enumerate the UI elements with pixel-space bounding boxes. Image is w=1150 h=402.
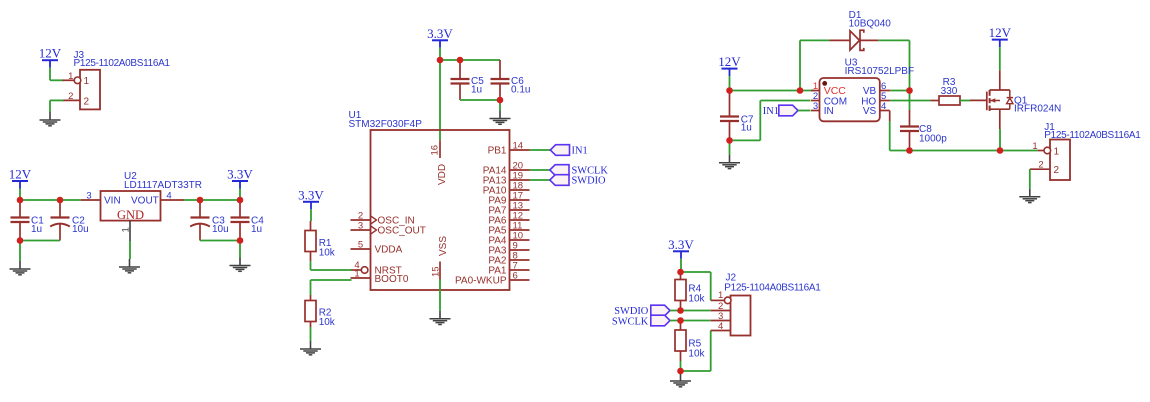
ground (J2) <box>680 373 682 381</box>
capacitor C8 <box>909 91 911 111</box>
net label SWDIO (J2) <box>651 305 670 316</box>
wire 3.3V rail down to VDD <box>439 48 441 141</box>
wire U2 GND to ground <box>129 241 131 259</box>
svg-text:OSC_OUT: OSC_OUT <box>378 225 426 236</box>
wire R5 to ground <box>680 351 682 361</box>
U1 pin 6 PA0-WKUP <box>510 279 530 281</box>
node junction (680.5,310.5) <box>677 307 684 314</box>
svg-text:BOOT0: BOOT0 <box>375 274 409 285</box>
svg-text:VIN: VIN <box>104 196 121 207</box>
svg-text:10BQ040: 10BQ040 <box>849 18 892 29</box>
svg-text:1: 1 <box>121 227 132 232</box>
svg-text:SWDIO: SWDIO <box>572 175 607 186</box>
svg-text:4: 4 <box>718 321 723 332</box>
svg-text:3.3V: 3.3V <box>298 187 324 202</box>
U1 pin 19 PA13 <box>510 179 530 181</box>
wire SWCLK to J2 pin 3 <box>670 320 711 322</box>
svg-text:IRS10752LPBF: IRS10752LPBF <box>845 66 915 77</box>
wire C6 to ground <box>499 100 501 111</box>
MCU U1 box <box>371 130 510 290</box>
U1 pin 7 PA1 <box>510 269 530 271</box>
U1 pin 3 OSC_OUT <box>351 229 371 231</box>
U1 pin 18 PA10 <box>510 189 530 191</box>
U1 pin 1 BOOT0 <box>351 277 371 279</box>
node junction (460,60) <box>457 57 464 64</box>
svg-text:2: 2 <box>68 91 73 102</box>
node junction (200,200) <box>197 197 204 204</box>
J1 pin 2 <box>1030 168 1050 170</box>
wire 12V to J3 pin 1 <box>49 68 51 81</box>
svg-text:3.3V: 3.3V <box>668 237 694 252</box>
wire to J2 pin 1 <box>681 271 711 273</box>
node junction (909.5,90.5) <box>906 87 913 94</box>
wire VB to bootstrap node <box>890 90 909 92</box>
wire R2 to ground <box>310 322 312 328</box>
wire 3.3V to R1 <box>310 209 312 221</box>
svg-text:1: 1 <box>1054 146 1060 157</box>
wire D1 cathode to VB <box>878 39 909 41</box>
capacitor C7 <box>729 91 731 117</box>
wire 3.3V rail right <box>440 59 500 61</box>
svg-text:0.1u: 0.1u <box>511 85 530 96</box>
U1 pin 14 PB1 <box>510 149 530 151</box>
wire PA13 to SWDIO <box>530 179 551 181</box>
svg-text:3.3V: 3.3V <box>427 26 453 41</box>
net label SWCLK <box>550 165 569 176</box>
U1 pin 16 VDD <box>439 140 441 158</box>
U1 pin 20 PA14 <box>510 169 530 171</box>
svg-text:P125-1102A0BS116A1: P125-1102A0BS116A1 <box>1044 130 1141 141</box>
svg-text:1u: 1u <box>741 123 752 134</box>
svg-text:IN1: IN1 <box>572 145 588 156</box>
capacitor C2 (polarized) <box>59 200 61 218</box>
wire VSS to ground <box>439 280 441 311</box>
wire VOUT to 3.3V <box>184 199 240 201</box>
wire source to J1 row <box>999 129 1001 151</box>
wire R1 to NRST <box>310 252 312 262</box>
node junction (800,90.5) <box>797 87 804 94</box>
wire J1 pin 2 to ground <box>1029 169 1031 189</box>
wire VS to source rail <box>889 111 891 122</box>
svg-text:SWCLK: SWCLK <box>612 316 649 327</box>
svg-text:1u: 1u <box>251 224 262 235</box>
U3 pin 2 COM <box>811 100 820 102</box>
svg-text:VDDA: VDDA <box>375 244 403 255</box>
svg-text:3: 3 <box>358 221 363 232</box>
resistor R3 <box>931 100 940 102</box>
svg-text:1: 1 <box>718 290 723 301</box>
node junction (680.5,371) <box>677 368 684 375</box>
capacitor C3 (polarized) <box>199 200 201 218</box>
node junction (440,60) <box>437 57 444 64</box>
U1 pin 8 PA2 <box>510 259 530 261</box>
wire C5-C6 bottom <box>460 99 500 101</box>
U1 pin 11 PA5 <box>510 229 530 231</box>
svg-text:IRFR024N: IRFR024N <box>1014 103 1061 114</box>
ground (J1) <box>1029 189 1031 197</box>
node junction (909.5,150.5) <box>906 147 913 154</box>
node junction (680.5,320.5) <box>677 317 684 324</box>
J2 pin 4 <box>711 330 731 332</box>
svg-text:2: 2 <box>84 97 90 108</box>
ground (R2) <box>310 341 312 349</box>
U3 pin 1 marker <box>822 81 827 86</box>
svg-text:IN: IN <box>824 106 834 117</box>
capacitor C5 <box>459 60 461 79</box>
svg-text:3: 3 <box>813 101 818 112</box>
wire 12V to drain <box>999 47 1001 70</box>
J3 pin 1 <box>63 79 75 81</box>
svg-text:1u: 1u <box>31 224 42 235</box>
U1 pin 13 PA7 <box>510 209 530 211</box>
svg-text:4: 4 <box>166 191 171 202</box>
svg-text:1: 1 <box>68 71 73 82</box>
capacitor C1 <box>19 200 21 218</box>
wire VCC rail <box>730 90 815 92</box>
wire C1-C2 bottom <box>20 240 60 242</box>
svg-text:5: 5 <box>358 240 363 251</box>
wire J3 pin 2 to ground <box>50 99 64 101</box>
U1 pin 17 PA9 <box>510 199 530 201</box>
regulator U2 box <box>101 191 161 221</box>
svg-text:2: 2 <box>1038 160 1043 171</box>
U1 pin 12 PA6 <box>510 219 530 221</box>
U3 pin 3 IN <box>811 110 820 112</box>
svg-text:2: 2 <box>1054 165 1060 176</box>
J1 pin 1 <box>1038 150 1045 152</box>
svg-text:P125-1102A0BS116A1: P125-1102A0BS116A1 <box>74 58 171 69</box>
svg-text:PB1: PB1 <box>488 145 507 156</box>
node junction (729.5,140.4) <box>726 137 733 144</box>
capacitor C4 <box>239 200 241 218</box>
svg-text:1: 1 <box>354 269 359 280</box>
ground (C3/C4) <box>239 258 241 266</box>
svg-text:12V: 12V <box>9 167 32 182</box>
net label SWDIO <box>550 175 569 186</box>
node junction (500,100) <box>497 97 504 104</box>
transistor Q1 (N-MOSFET) <box>999 70 1001 90</box>
connector J1 box <box>1050 140 1070 181</box>
U3 pin 5 HO <box>880 100 890 102</box>
diode D1 (Schottky) <box>830 39 851 41</box>
svg-text:PA0-WKUP: PA0-WKUP <box>455 275 507 286</box>
wire C4 to ground <box>239 241 241 258</box>
U1 pin 15 VSS <box>439 262 441 280</box>
U1 pin 4 NRST <box>351 269 362 271</box>
U3 pin 4 VS <box>880 110 890 112</box>
svg-text:VCC: VCC <box>824 85 847 97</box>
resistor R1 <box>305 231 316 252</box>
node junction (240,240.5) <box>237 237 244 244</box>
svg-text:4: 4 <box>881 101 886 112</box>
svg-text:3.3V: 3.3V <box>227 167 253 182</box>
ground (J3) <box>49 112 51 120</box>
capacitor C6 <box>499 60 501 79</box>
connector J3 box <box>80 70 100 110</box>
node junction (20,240.5) <box>17 237 24 244</box>
svg-text:14: 14 <box>513 140 524 151</box>
svg-text:10u: 10u <box>72 224 89 235</box>
svg-text:1: 1 <box>84 76 90 87</box>
wire SWDIO to J2 pin 2 <box>670 310 711 312</box>
U3 pin 6 VB <box>880 90 890 92</box>
wire PA14 to SWCLK <box>530 169 551 171</box>
U2 pin 1 GND <box>129 221 131 241</box>
U1 pin 9 PA3 <box>510 249 530 251</box>
wire J2 pin 4 down <box>710 331 712 372</box>
svg-text:1000p: 1000p <box>919 133 947 144</box>
svg-text:GND: GND <box>117 208 144 222</box>
node junction (729.5,90.5) <box>726 87 733 94</box>
wire HO to R3 <box>890 100 930 102</box>
wire C1 to ground <box>19 241 21 262</box>
svg-text:16: 16 <box>430 145 441 156</box>
U2 pin 2 VOUT <box>161 199 185 201</box>
node junction (20,200) <box>17 197 24 204</box>
U3 pin 1 VCC <box>811 90 820 92</box>
svg-text:10k: 10k <box>688 349 705 360</box>
resistor R2 <box>305 301 316 322</box>
ground (C1/C2) <box>19 261 21 269</box>
resistor R5 <box>680 321 682 331</box>
ground (VSS) <box>439 311 441 319</box>
wire R4 to SWDIO <box>680 301 682 311</box>
net label SWCLK (J2) <box>651 315 670 326</box>
wire IN1 to IN <box>798 110 811 112</box>
svg-text:10u: 10u <box>212 224 229 235</box>
net label IN1 (driver) <box>779 105 798 116</box>
svg-text:12V: 12V <box>989 25 1012 40</box>
svg-text:12V: 12V <box>718 54 741 69</box>
U1 pin 10 PA4 <box>510 239 530 241</box>
net label IN1 (PB1) <box>550 145 569 156</box>
J3 pin 2 <box>63 99 81 101</box>
svg-text:VDD: VDD <box>437 164 448 185</box>
wire PB1 to IN1 <box>530 149 551 151</box>
J2 pin 2 <box>711 310 731 312</box>
wire D1 anode riser <box>799 40 801 90</box>
wire COM return <box>730 139 761 141</box>
svg-text:VOUT: VOUT <box>131 196 159 207</box>
node junction (240,200) <box>237 197 244 204</box>
ground (U2) <box>129 259 131 267</box>
svg-text:15: 15 <box>431 266 442 277</box>
wire 3.3V lead <box>239 189 241 201</box>
svg-text:LD1117ADT33TR: LD1117ADT33TR <box>124 180 202 191</box>
svg-text:1: 1 <box>1032 141 1037 152</box>
svg-text:330: 330 <box>941 86 958 97</box>
node junction (680.5,272) <box>677 269 684 276</box>
wire R3 to gate <box>970 99 987 101</box>
svg-text:6: 6 <box>513 270 518 281</box>
node junction (60,200) <box>57 197 64 204</box>
svg-text:VS: VS <box>863 106 877 117</box>
svg-text:10k: 10k <box>319 317 336 328</box>
ground (C7) <box>729 155 731 163</box>
U1 pin 2 OSC_IN <box>351 219 371 221</box>
svg-text:VSS: VSS <box>438 236 449 256</box>
svg-text:IN1: IN1 <box>763 106 779 117</box>
connector J2 box <box>731 296 751 336</box>
svg-text:12V: 12V <box>39 46 62 61</box>
svg-text:3: 3 <box>86 191 91 202</box>
svg-text:P125-1104A0BS116A1: P125-1104A0BS116A1 <box>724 283 821 294</box>
J2 pin 1 <box>711 299 725 301</box>
resistor R4 <box>675 280 686 301</box>
wire 12V to VCC rail <box>729 76 731 90</box>
wire 3.3V to R4 <box>680 259 682 275</box>
svg-text:1u: 1u <box>471 85 482 96</box>
wire 12V input bus <box>19 189 21 201</box>
wire C7 to ground <box>729 140 731 154</box>
wire C3-C4 bottom <box>200 240 240 242</box>
driver U3 box <box>820 78 880 121</box>
U2 pin 3 VIN <box>81 199 101 201</box>
node junction (1000,150.5) <box>997 147 1004 154</box>
svg-text:10k: 10k <box>319 247 336 258</box>
svg-text:10k: 10k <box>688 294 705 305</box>
J2 pin 3 <box>711 320 731 322</box>
wire BOOT0 to R2 <box>311 279 352 281</box>
ground (C5/C6) <box>499 111 501 119</box>
svg-text:STM32F030F4P: STM32F030F4P <box>349 119 423 130</box>
U1 pin 5 VDDA <box>351 248 371 250</box>
